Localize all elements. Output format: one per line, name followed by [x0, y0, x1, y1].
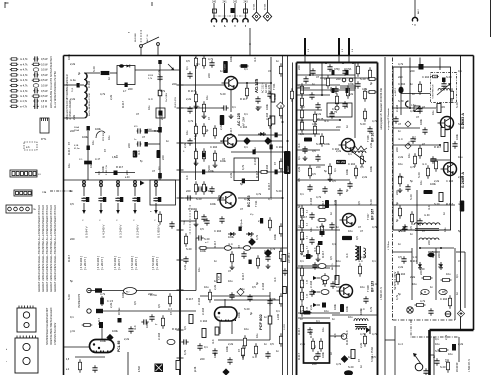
svg-text:m 4: m 4 [412, 255, 417, 259]
svg-text:U 1 850 V: U 1 850 V [157, 225, 161, 238]
svg-text:1n: 1n [276, 349, 279, 353]
svg-text:47: 47 [237, 349, 241, 352]
svg-text:C 204: C 204 [422, 75, 430, 79]
svg-text:2,2k: 2,2k [297, 166, 301, 172]
svg-text:220: 220 [427, 240, 431, 245]
svg-text:m 4a: m 4a [70, 79, 76, 82]
svg-text:4,7k: 4,7k [255, 234, 259, 240]
svg-text:BEI ALLEN MESSUNGEN IST DER: BEI ALLEN MESSUNGEN IST DER [42, 205, 45, 245]
svg-text:m 4: m 4 [437, 263, 441, 268]
svg-text:m 4,7k: m 4,7k [20, 90, 28, 93]
svg-text:220: 220 [398, 75, 403, 79]
svg-text:10u: 10u [446, 272, 451, 276]
svg-text:m 47: m 47 [95, 159, 101, 161]
svg-text:29.03.59: 29.03.59 [456, 362, 459, 372]
svg-text:10u: 10u [89, 163, 93, 168]
svg-text:ALLE WIDERSTAENDE IN OHM: ALLE WIDERSTAENDE IN OHM [54, 72, 57, 109]
svg-text:[ 4 St 204 ]: [ 4 St 204 ] [113, 256, 117, 270]
svg-text:0,5 W: 0,5 W [41, 85, 48, 88]
svg-text:R115: R115 [148, 75, 154, 77]
svg-text:5p: 5p [300, 252, 303, 256]
svg-text:0,5 W: 0,5 W [41, 63, 48, 66]
svg-text:U 5 94 V: U 5 94 V [85, 226, 89, 238]
svg-text:10u: 10u [208, 189, 213, 193]
svg-text:m 40: m 40 [424, 214, 430, 217]
svg-text:m 4: m 4 [316, 225, 321, 229]
svg-text:0,5: 0,5 [329, 256, 333, 260]
svg-text:[ L 204 5 ]: [ L 204 5 ] [134, 257, 138, 270]
svg-text:R 217: R 217 [297, 352, 301, 360]
svg-text:220: 220 [160, 115, 164, 120]
svg-text:m 4: m 4 [345, 253, 349, 258]
svg-text:R 217: R 217 [300, 215, 308, 219]
svg-text:S 20: S 20 [204, 237, 210, 241]
svg-text:0,1: 0,1 [232, 105, 236, 109]
svg-text:0,1: 0,1 [300, 192, 304, 196]
svg-text:R 217: R 217 [229, 127, 233, 135]
svg-text:m 4,7k: m 4,7k [20, 63, 28, 66]
svg-text:m 4: m 4 [185, 175, 189, 180]
svg-text:2,2k: 2,2k [183, 142, 187, 148]
svg-text:1n: 1n [276, 59, 279, 63]
svg-text:S 20: S 20 [348, 365, 354, 369]
svg-text:U 3 240 V: U 3 240 V [119, 225, 123, 238]
svg-text:0,5: 0,5 [252, 285, 256, 289]
svg-text:5p: 5p [70, 279, 73, 283]
svg-text:2,2k: 2,2k [124, 337, 130, 341]
svg-text:GERAET UEBER EINEN REGEL-TRENN: GERAET UEBER EINEN REGEL-TRENN [54, 245, 57, 292]
svg-text:L4T 486 2: L4T 486 2 [289, 252, 291, 263]
svg-text:2,2k: 2,2k [359, 342, 363, 348]
svg-text:10u: 10u [419, 180, 423, 185]
svg-text:100k: 100k [210, 202, 216, 206]
svg-text:Bei Du 68 BB-Ke PCL/M: Bei Du 68 BB-Ke PCL/M [89, 93, 91, 116]
svg-text:16 Tas: 16 Tas [118, 307, 121, 315]
svg-text:220: 220 [300, 237, 305, 241]
svg-text:2,2k: 2,2k [219, 124, 223, 130]
svg-text:4,7k: 4,7k [241, 164, 245, 170]
svg-text:S 20: S 20 [186, 247, 192, 251]
svg-text:4n: 4n [155, 324, 157, 326]
svg-text:S 20: S 20 [220, 92, 226, 96]
svg-text:2,2k: 2,2k [329, 86, 333, 92]
svg-text:U. OSZILLOGRAF: U. OSZILLOGRAF [69, 99, 72, 120]
svg-text:10u: 10u [448, 352, 453, 356]
svg-text:1n: 1n [332, 317, 335, 321]
svg-text:0,5: 0,5 [133, 301, 137, 305]
svg-text:220: 220 [395, 147, 399, 152]
svg-text:zu 4: zu 4 [398, 343, 403, 346]
svg-text:1n: 1n [430, 285, 433, 289]
svg-text:0,1: 0,1 [348, 152, 352, 156]
svg-text:100k: 100k [95, 127, 101, 131]
svg-text:47: 47 [237, 245, 241, 248]
svg-text:0,1: 0,1 [244, 112, 248, 116]
svg-text:GERAET UEBER EINEN REGEL-TRENN: GERAET UEBER EINEN REGEL-TRENN [38, 245, 41, 292]
svg-text:4,7k: 4,7k [443, 289, 447, 295]
svg-text:1n: 1n [455, 292, 459, 295]
svg-text:220: 220 [125, 170, 129, 175]
svg-text:100k: 100k [369, 166, 373, 172]
svg-text:1n: 1n [265, 137, 269, 140]
svg-text:2,2k: 2,2k [410, 275, 416, 279]
svg-text:5p: 5p [255, 282, 259, 285]
svg-text:4,7k: 4,7k [372, 225, 378, 229]
svg-text:S 20: S 20 [369, 199, 373, 205]
svg-text:m 4: m 4 [137, 150, 141, 155]
svg-text:L 79 Bau: L 79 Bau [388, 241, 390, 250]
svg-text:5p: 5p [205, 129, 209, 132]
svg-text:4,7k: 4,7k [420, 299, 426, 303]
svg-text:10u: 10u [435, 342, 440, 346]
svg-text:AUT. 11: AUT. 11 [146, 34, 149, 42]
svg-text:C 204: C 204 [348, 162, 356, 166]
svg-text:m 4: m 4 [297, 143, 301, 148]
svg-text:R 217: R 217 [255, 170, 259, 178]
svg-text:10u: 10u [255, 333, 259, 338]
svg-text:C 204: C 204 [188, 207, 196, 211]
svg-text:BF 167: BF 167 [371, 131, 375, 142]
svg-text:C 204: C 204 [210, 145, 218, 149]
svg-text:45 75: 45 75 [317, 118, 324, 121]
svg-text:GERAET UEBER EINEN REGEL-TRENN: GERAET UEBER EINEN REGEL-TRENN [46, 245, 49, 292]
svg-text:500A: 500A [74, 126, 79, 129]
svg-text:S 53: S 53 [303, 279, 305, 284]
svg-text:10u: 10u [348, 229, 353, 233]
svg-text:5p: 5p [419, 292, 423, 295]
svg-text:100k: 100k [200, 249, 206, 253]
svg-text:C 204: C 204 [264, 249, 272, 253]
svg-text:U 4 240 V: U 4 240 V [102, 225, 106, 238]
svg-text:1n: 1n [214, 259, 217, 263]
svg-text:5p: 5p [398, 292, 401, 296]
svg-text:10u: 10u [185, 130, 189, 135]
svg-text:0,5: 0,5 [300, 309, 304, 313]
svg-text:0,5: 0,5 [409, 226, 413, 230]
svg-text:0,5: 0,5 [372, 355, 376, 359]
svg-text:m 4,7k: m 4,7k [20, 69, 28, 72]
svg-text:4,7k: 4,7k [244, 197, 250, 201]
svg-text:2,2k: 2,2k [316, 112, 322, 116]
svg-text:C 204: C 204 [240, 125, 248, 129]
svg-text:m 4: m 4 [252, 355, 257, 359]
svg-text:4,7k: 4,7k [321, 279, 325, 285]
svg-text:10u: 10u [443, 227, 447, 232]
svg-text:S 20: S 20 [360, 77, 366, 81]
svg-text:S 20: S 20 [409, 194, 413, 200]
svg-text:4,7k: 4,7k [410, 109, 416, 113]
svg-text:100k: 100k [336, 285, 342, 289]
svg-text:100k: 100k [455, 134, 459, 140]
svg-text:m 4: m 4 [148, 97, 153, 101]
svg-text:m 4: m 4 [228, 242, 233, 246]
svg-text:2,2k: 2,2k [336, 149, 342, 153]
svg-text:S 20: S 20 [276, 189, 282, 193]
svg-text:0,1: 0,1 [455, 274, 459, 278]
svg-text:2,2k: 2,2k [217, 194, 221, 200]
svg-text:m: m [128, 32, 130, 34]
svg-text:0,5: 0,5 [270, 342, 274, 346]
svg-text:220: 220 [437, 253, 441, 258]
svg-text:2,2k: 2,2k [229, 172, 233, 178]
svg-text:5p: 5p [369, 82, 373, 85]
svg-text:S 20: S 20 [255, 82, 259, 88]
svg-text:243: 243 [244, 1, 249, 4]
svg-text:T 006: T 006 [366, 135, 370, 142]
svg-text:0,5: 0,5 [312, 172, 316, 176]
svg-text:5p: 5p [395, 202, 399, 205]
svg-text:10u: 10u [67, 163, 71, 168]
svg-text:T 001: T 001 [272, 83, 276, 90]
svg-text:1 503 271 S: 1 503 271 S [468, 359, 471, 372]
svg-text:0,1: 0,1 [360, 165, 364, 169]
svg-text:R 217: R 217 [97, 317, 101, 325]
svg-text:2,2k: 2,2k [458, 342, 464, 346]
svg-text:47: 47 [416, 115, 419, 119]
svg-text:1n: 1n [345, 125, 349, 128]
svg-text:0,5 W: 0,5 W [41, 69, 48, 72]
svg-text:Oe 5,8kV: Oe 5,8kV [166, 92, 168, 102]
svg-text:1n: 1n [107, 77, 111, 80]
svg-text:0,5: 0,5 [434, 75, 438, 79]
svg-text:S 203: S 203 [284, 324, 286, 330]
svg-text:PCF 802: PCF 802 [258, 313, 263, 330]
svg-text:100k: 100k [273, 234, 277, 240]
svg-text:240: 240 [212, 1, 217, 4]
svg-text:R 217: R 217 [154, 129, 162, 133]
svg-text:0,1: 0,1 [157, 166, 161, 170]
svg-text:R 217: R 217 [172, 327, 180, 331]
svg-text:0,1: 0,1 [196, 105, 200, 109]
svg-text:m 4: m 4 [358, 259, 363, 263]
svg-text:4,7k: 4,7k [362, 87, 368, 91]
svg-text:10u: 10u [321, 327, 325, 332]
svg-text:S 20: S 20 [244, 307, 250, 311]
svg-text:220: 220 [172, 82, 177, 86]
svg-text:C 204: C 204 [253, 157, 257, 165]
svg-text:4,7k: 4,7k [336, 362, 342, 366]
svg-text:5p: 5p [309, 255, 313, 258]
svg-text:0,1: 0,1 [458, 69, 462, 73]
svg-text:100k: 100k [121, 292, 125, 298]
svg-text:[ L 204 5 ]: [ L 204 5 ] [83, 257, 87, 270]
svg-text:10u: 10u [228, 279, 233, 283]
svg-text:S 20: S 20 [256, 105, 262, 109]
svg-text:5p: 5p [77, 72, 81, 75]
svg-text:S 20: S 20 [435, 349, 441, 353]
svg-text:0,1: 0,1 [297, 156, 301, 160]
svg-text:m 4,7k: m 4,7k [20, 74, 28, 77]
svg-text:ERKLAERUNG D ELEKTR SCHALTZEIC: ERKLAERUNG D ELEKTR SCHALTZEICHEN [50, 56, 53, 108]
svg-text:C 204: C 204 [446, 179, 454, 183]
svg-text:S 20: S 20 [455, 102, 459, 108]
svg-text:0,5: 0,5 [355, 236, 359, 240]
svg-text:47: 47 [316, 75, 319, 79]
svg-text:SPANNUNGEN GEMESSEN MIT: SPANNUNGEN GEMESSEN MIT [46, 307, 49, 345]
svg-text:47: 47 [358, 225, 361, 229]
svg-text:47: 47 [229, 192, 233, 195]
svg-text:2,2k: 2,2k [300, 342, 306, 346]
svg-text:220: 220 [345, 103, 349, 108]
svg-text:2,2k: 2,2k [157, 69, 161, 75]
svg-text:2,2k: 2,2k [183, 264, 187, 270]
svg-text:C 1,5: C 1,5 [107, 300, 114, 303]
svg-text:10u: 10u [458, 155, 463, 159]
svg-text:[ L 204 5 ]: [ L 204 5 ] [117, 257, 121, 270]
svg-text:0,1: 0,1 [332, 107, 336, 111]
svg-text:S 406 L 75 80: S 406 L 75 80 [371, 347, 374, 362]
svg-text:1n: 1n [442, 212, 446, 215]
svg-text:10u: 10u [431, 110, 435, 115]
svg-text:2,2k: 2,2k [398, 265, 404, 269]
svg-text:220: 220 [312, 362, 317, 366]
svg-text:220: 220 [336, 125, 341, 129]
svg-text:1n: 1n [410, 232, 413, 236]
svg-text:0,5: 0,5 [186, 59, 190, 63]
svg-text:100k: 100k [220, 159, 226, 163]
svg-text:R 217: R 217 [321, 250, 325, 258]
svg-text:220: 220 [200, 357, 205, 361]
svg-text:2,2k: 2,2k [228, 342, 234, 346]
svg-text:220: 220 [336, 77, 341, 81]
svg-text:[ 4 St 204 ]: [ 4 St 204 ] [96, 256, 100, 270]
svg-text:RO: RO [126, 292, 130, 294]
svg-text:AC 125: AC 125 [237, 113, 241, 126]
svg-text:0,5 W: 0,5 W [41, 90, 48, 93]
svg-text:2,2k: 2,2k [72, 114, 76, 120]
svg-text:100k: 100k [67, 54, 71, 60]
svg-text:m 4: m 4 [360, 307, 365, 311]
svg-text:2,2k: 2,2k [109, 94, 113, 100]
svg-text:2,2k: 2,2k [434, 179, 440, 183]
svg-text:R 217: R 217 [297, 327, 301, 335]
svg-text:m 4,7k: m 4,7k [20, 101, 28, 103]
svg-text:0,1: 0,1 [268, 197, 272, 201]
svg-text:CHE3 4,5V: CHE3 4,5V [175, 97, 177, 108]
svg-text:47: 47 [240, 207, 243, 211]
svg-text:S 20: S 20 [360, 255, 366, 259]
svg-text:1n: 1n [70, 189, 73, 193]
svg-text:5p: 5p [345, 189, 349, 192]
svg-text:10u: 10u [324, 309, 329, 313]
svg-text:5p: 5p [458, 229, 461, 233]
svg-text:0,5 W: 0,5 W [41, 101, 48, 103]
svg-text:100k: 100k [213, 352, 217, 358]
svg-text:0,1: 0,1 [216, 315, 220, 319]
svg-text:4,7k: 4,7k [372, 332, 378, 336]
svg-text:S 20: S 20 [434, 202, 440, 206]
svg-text:0,1: 0,1 [196, 62, 200, 66]
svg-text:5p: 5p [297, 205, 301, 208]
svg-text:100k: 100k [345, 169, 349, 175]
svg-text:0,5 W: 0,5 W [41, 106, 48, 108]
svg-text:10u: 10u [336, 259, 341, 263]
svg-text:10u: 10u [360, 285, 365, 289]
svg-text:0,5: 0,5 [157, 304, 161, 308]
svg-text:0,1: 0,1 [204, 345, 208, 349]
svg-text:220: 220 [70, 129, 75, 133]
svg-text:0,1: 0,1 [300, 259, 304, 263]
svg-text:PERMADYN: PERMADYN [78, 294, 81, 308]
svg-text:T 007: T 007 [366, 213, 370, 220]
svg-text:47: 47 [273, 162, 277, 165]
svg-text:C 204: C 204 [265, 164, 269, 172]
svg-text:a 203: a 203 [277, 313, 280, 320]
svg-text:5p: 5p [321, 225, 325, 228]
svg-text:100k: 100k [333, 304, 337, 310]
svg-text:R 217: R 217 [67, 254, 71, 262]
svg-text:1n: 1n [412, 92, 415, 96]
svg-text:47: 47 [398, 122, 401, 126]
svg-text:2,2k: 2,2k [70, 62, 76, 66]
svg-text:BF 167: BF 167 [371, 209, 375, 220]
svg-text:30 101: 30 101 [253, 3, 255, 10]
svg-text:47: 47 [458, 259, 461, 263]
svg-text:10u: 10u [204, 285, 209, 289]
svg-text:R 217: R 217 [309, 330, 313, 338]
svg-text:2,2k: 2,2k [398, 155, 404, 159]
svg-text:47: 47 [324, 77, 327, 81]
svg-text:m 4,7k: m 4,7k [20, 95, 28, 98]
svg-text:0,1: 0,1 [407, 141, 411, 145]
svg-text:2,2k: 2,2k [186, 97, 192, 101]
svg-text:41,5m: 41,5m [74, 148, 80, 150]
svg-text:0,5: 0,5 [312, 149, 316, 153]
svg-text:T 008: T 008 [366, 285, 370, 292]
svg-text:2,2k: 2,2k [109, 302, 113, 308]
svg-text:220: 220 [410, 69, 415, 73]
svg-text:C 204: C 204 [201, 307, 205, 315]
svg-text:m 4,7k: m 4,7k [20, 106, 28, 108]
svg-text:R 217: R 217 [410, 259, 418, 263]
svg-text:S 20: S 20 [360, 122, 366, 126]
svg-text:10u: 10u [197, 267, 201, 272]
svg-text:47: 47 [103, 149, 107, 152]
svg-text:2,2k: 2,2k [362, 175, 368, 179]
svg-text:[ 4 St 204 ]: [ 4 St 204 ] [151, 256, 155, 270]
svg-text:m 4: m 4 [372, 282, 377, 286]
svg-text:100k: 100k [112, 329, 118, 333]
svg-text:47: 47 [360, 149, 363, 153]
svg-text:C203: C203 [225, 64, 227, 70]
svg-text:47: 47 [357, 359, 361, 362]
svg-text:220: 220 [127, 143, 131, 148]
svg-text:100k: 100k [398, 175, 404, 179]
svg-text:0,1: 0,1 [435, 337, 439, 341]
svg-text:CHQ: CHQ [334, 68, 340, 71]
svg-text:NUR BEI: NUR BEI [135, 33, 137, 42]
svg-text:C 204: C 204 [261, 282, 265, 290]
svg-text:10u: 10u [309, 227, 313, 232]
svg-text:1n: 1n [432, 355, 436, 358]
svg-text:4,7k: 4,7k [100, 292, 106, 296]
svg-text:1n: 1n [300, 285, 303, 289]
svg-text:m 4: m 4 [422, 162, 427, 166]
svg-text:S 20: S 20 [67, 294, 71, 300]
svg-text:C 204: C 204 [197, 297, 201, 305]
svg-text:100k: 100k [241, 354, 245, 360]
svg-text:R 217: R 217 [241, 272, 245, 280]
svg-text:47: 47 [169, 312, 173, 315]
svg-text:0,5: 0,5 [70, 202, 74, 206]
svg-text:C 204: C 204 [309, 197, 313, 205]
svg-text:30 101: 30 101 [264, 3, 266, 10]
svg-text:m 4: m 4 [193, 135, 197, 140]
svg-text:0,1: 0,1 [193, 161, 197, 165]
svg-text:220: 220 [395, 190, 399, 195]
svg-text:C 204: C 204 [214, 229, 222, 233]
svg-text:0,1: 0,1 [244, 145, 248, 149]
